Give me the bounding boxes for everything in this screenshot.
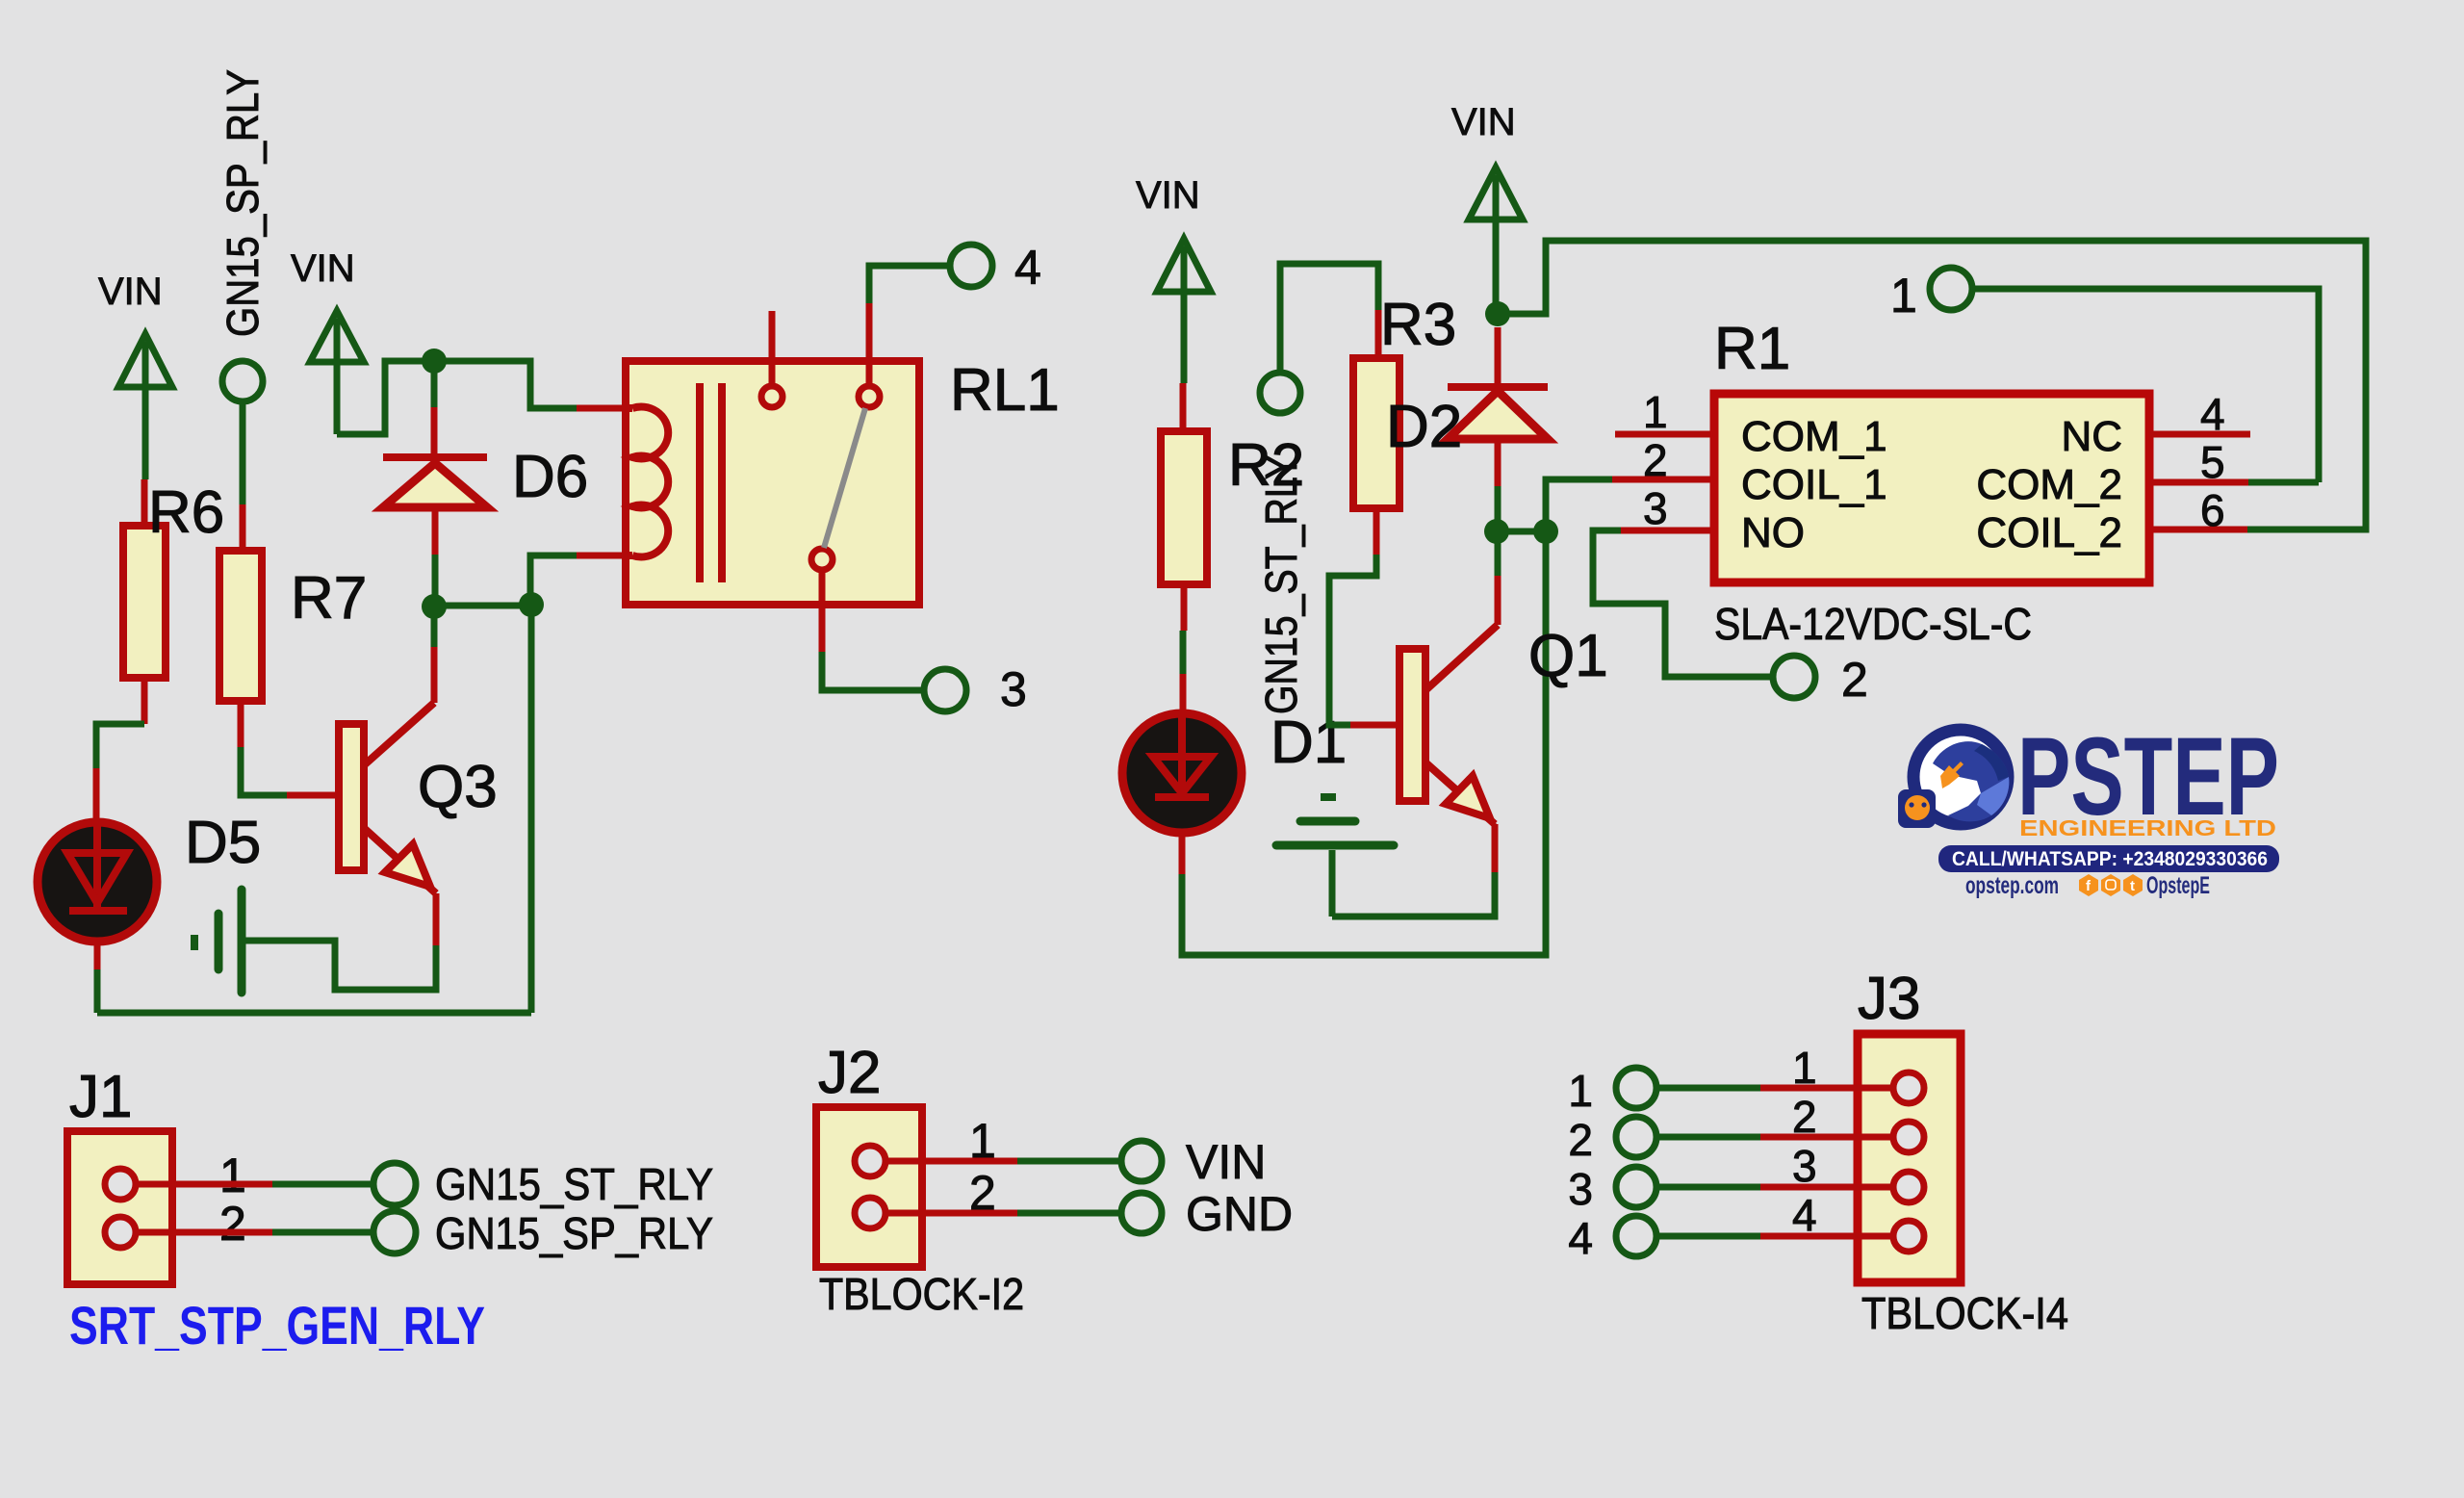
wire J2 pin1 to terminal VIN: [886, 1158, 1121, 1165]
relay RL1: [626, 357, 1060, 605]
svg-text:D6: D6: [512, 444, 588, 510]
diode D2: [1386, 387, 1548, 460]
svg-text:2: 2: [1643, 435, 1668, 485]
node D junction: [1484, 519, 1509, 544]
svg-text:4: 4: [1014, 241, 1041, 295]
svg-text:COM_2: COM_2: [1976, 461, 2122, 508]
svg-text:J2: J2: [818, 1040, 881, 1106]
wire J3 pin1 to terminal 1: [1656, 1085, 1893, 1092]
svg-text:4: 4: [1792, 1190, 1817, 1240]
wire relay pole to terminal 3: [822, 570, 924, 690]
resistor R7: [219, 551, 367, 701]
svg-text:RL1: RL1: [950, 357, 1060, 424]
wire node D to node E: [1497, 529, 1546, 535]
wire J3 pin2 to terminal 2: [1656, 1134, 1893, 1141]
svg-text:opstep.com: opstep.com: [1965, 872, 2059, 899]
wire pin 5 COM_2 to terminal 1: [1972, 289, 2319, 482]
wire R2 bottom to D1 anode: [1183, 584, 1184, 713]
svg-text:2: 2: [1568, 1115, 1593, 1165]
svg-text:VIN: VIN: [1451, 101, 1516, 143]
wire R6 bottom to D5 anode: [96, 678, 144, 824]
node C junction: [519, 592, 544, 617]
wire R3 bottom to Q1 base: [1329, 508, 1399, 725]
svg-text:3: 3: [1792, 1141, 1817, 1191]
svg-text:GND: GND: [1186, 1187, 1293, 1241]
wire relay NO contact to terminal 4: [869, 266, 950, 386]
ground (near D1, pointing up): [1276, 797, 1394, 917]
terminal 2 (J3 left): [1568, 1115, 1656, 1165]
wire pin 3 NO to terminal 2: [1593, 530, 1773, 677]
terminal GN15_SP_RLY (J1 side): [373, 1208, 713, 1258]
wire node B to node C: [434, 603, 531, 609]
LED D1: [1122, 710, 1347, 833]
svg-text:R7: R7: [291, 565, 367, 632]
wire bottom rail (left circuit): [97, 1010, 531, 1017]
wire node C up to coil pin 2: [530, 555, 626, 605]
wire Q1 emitter to ground: [1332, 824, 1495, 917]
terminal 3: [924, 662, 1027, 716]
wire VIN2 to node A and coil pin: [337, 361, 577, 434]
power VIN (second, feeds relay coil): [291, 247, 364, 434]
node E junction: [1533, 519, 1558, 544]
wire rail up to coil node: [528, 605, 535, 1013]
power VIN (third, feeds R2): [1136, 174, 1211, 383]
svg-text:VIN: VIN: [1186, 1135, 1266, 1189]
transistor Q1: [1399, 623, 1608, 824]
connector J2 TBLOCK-I2: [816, 1040, 1024, 1319]
svg-text:NO: NO: [1741, 509, 1805, 556]
svg-text:Q1: Q1: [1528, 623, 1608, 689]
wire J1 pin2 to terminal GN15_SP_RLY: [137, 1229, 373, 1236]
svg-text:CALL/WHATSAPP: +2348029330366: CALL/WHATSAPP: +2348029330366: [1952, 848, 2268, 870]
terminal 4 (J3 left): [1568, 1213, 1656, 1263]
pin 1 COM_1 stub (unconnected): [1615, 431, 1714, 438]
svg-text:VIN: VIN: [98, 271, 163, 313]
node B junction: [422, 594, 447, 619]
svg-text:R1: R1: [1714, 316, 1790, 382]
wire node A down to D6 cathode: [431, 361, 438, 457]
relay R1 SLA-12VDC-SL-C: [1714, 316, 2149, 649]
svg-text:1: 1: [1568, 1066, 1593, 1116]
svg-text:D5: D5: [185, 810, 261, 876]
diode D6: [383, 444, 588, 510]
terminal 2: [1773, 653, 1868, 707]
ground (left circuit): [194, 890, 242, 993]
wire J2 pin2 to terminal GND: [886, 1210, 1121, 1217]
svg-text:GN15_ST_RLY: GN15_ST_RLY: [1256, 454, 1306, 714]
svg-text:1: 1: [219, 1149, 246, 1202]
wire node to R7: [240, 402, 246, 551]
svg-text:VIN: VIN: [1136, 174, 1200, 217]
power VIN (left, feeds R6): [98, 271, 172, 479]
terminal 4: [950, 241, 1041, 295]
svg-text:COM_1: COM_1: [1741, 413, 1887, 460]
wire D1 cathode to node E: [1182, 531, 1546, 955]
terminal GND (J2): [1121, 1187, 1293, 1241]
wire J1 pin1 to terminal GN15_ST_RLY: [137, 1181, 373, 1188]
svg-text:J3: J3: [1858, 966, 1920, 1032]
svg-text:GN15_SP_RLY: GN15_SP_RLY: [435, 1208, 713, 1258]
wire node GN15_ST to R3: [1280, 264, 1378, 373]
svg-text:3: 3: [1568, 1164, 1593, 1214]
svg-text:3: 3: [1643, 483, 1668, 533]
svg-text:6: 6: [2200, 485, 2225, 535]
svg-text:R6: R6: [148, 479, 224, 546]
wire VIN to R6 pin: [141, 479, 148, 526]
svg-text:SLA-12VDC-SL-C: SLA-12VDC-SL-C: [1714, 599, 2032, 649]
LED D5: [38, 810, 261, 942]
pin stub relay common (unconnected): [769, 311, 776, 386]
terminal 1: [1890, 268, 1972, 323]
svg-text:Q3: Q3: [418, 754, 498, 820]
wire J3 pin3 to terminal 3: [1656, 1184, 1893, 1191]
svg-text:TBLOCK-I2: TBLOCK-I2: [819, 1269, 1024, 1319]
wire D2 cathode to VIN node: [1495, 327, 1501, 387]
svg-text:1: 1: [1643, 387, 1668, 437]
wire node E to COIL_1 pin 2: [1546, 479, 1714, 531]
svg-text:SRT_STP_GEN_RLY: SRT_STP_GEN_RLY: [69, 1295, 485, 1356]
wire J3 pin4 to terminal 4: [1656, 1233, 1893, 1240]
svg-text:GN15_ST_RLY: GN15_ST_RLY: [435, 1159, 713, 1209]
wire VIN3 to R2: [1180, 383, 1187, 431]
svg-text:2: 2: [1841, 653, 1868, 707]
svg-text:t: t: [2130, 878, 2135, 894]
svg-text:COIL_2: COIL_2: [1976, 509, 2122, 556]
pin 4 NC stub (unconnected): [2149, 431, 2250, 438]
terminal 3 (J3 left): [1568, 1164, 1656, 1214]
wire Q1 collector to node D: [1495, 531, 1501, 625]
connector J1: [67, 1064, 172, 1284]
resistor R3: [1353, 292, 1456, 508]
wire Q3 emitter to ground: [242, 893, 436, 990]
svg-text:2: 2: [219, 1197, 246, 1251]
svg-text:ENGINEERING LTD: ENGINEERING LTD: [2019, 815, 2276, 840]
terminal GN15_ST_RLY (node circle + rotated net label): [1256, 373, 1306, 714]
svg-text:J1: J1: [69, 1064, 132, 1130]
svg-text:VIN: VIN: [291, 247, 355, 290]
connector J3 TBLOCK-I4: [1858, 966, 2068, 1338]
transistor Q3: [339, 703, 498, 893]
wire D2 anode to node D: [1495, 439, 1501, 531]
terminal 1 (J3 left): [1568, 1066, 1656, 1116]
svg-text:COIL_1: COIL_1: [1741, 461, 1887, 508]
terminal GN15_ST_RLY (J1 side): [373, 1159, 713, 1209]
wire D6 anode to node B: [432, 507, 439, 607]
wire R7 bottom to Q3 base: [241, 701, 339, 795]
OPSTEP company logo: [1898, 715, 2279, 899]
svg-text:R3: R3: [1380, 292, 1456, 358]
svg-text:OpstepE: OpstepE: [2146, 872, 2210, 899]
resistor R6: [123, 479, 224, 678]
wire VIN4 to COIL_2 (top loop): [1498, 241, 2366, 529]
svg-text:NC: NC: [2061, 413, 2122, 460]
terminal VIN (J2): [1121, 1135, 1266, 1189]
svg-text:D2: D2: [1386, 394, 1462, 460]
wire node B down to Q3 collector: [431, 607, 438, 703]
wire D5 cathode to bottom rail: [94, 943, 101, 1013]
node A junction: [422, 349, 447, 374]
wire coil pin 1 stub: [577, 405, 626, 412]
svg-text:TBLOCK-I4: TBLOCK-I4: [1861, 1288, 2068, 1338]
node VIN4 junction: [1485, 301, 1510, 326]
power VIN (fourth, feeds D2/relay R1): [1451, 101, 1523, 314]
svg-text:4: 4: [1568, 1213, 1593, 1263]
svg-text:GN15_SP_RLY: GN15_SP_RLY: [218, 69, 268, 337]
svg-text:D1: D1: [1270, 710, 1347, 776]
svg-text:3: 3: [1000, 662, 1027, 716]
terminal GN15_SP_RLY (node circle + rotated net label): [218, 69, 268, 401]
resistor R2: [1161, 431, 1304, 584]
svg-text:1: 1: [1890, 269, 1917, 323]
